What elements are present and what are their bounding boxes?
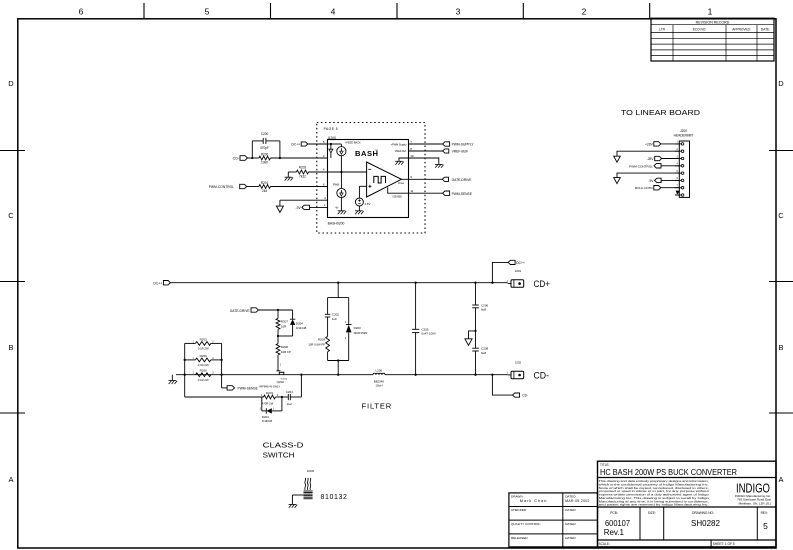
ground (analog, near R202) [285,177,294,180]
svg-text:D200: D200 [354,326,362,330]
svg-text:2: 2 [582,7,587,17]
wire R201 to U200 pin 6 [270,186,327,188]
legal text [599,479,709,506]
snubber/diode branch from DC++ rail [337,283,339,298]
ground arrow (between C206/C208) [469,331,476,339]
svg-text:J202: J202 [515,360,522,364]
internal sense wire [388,187,409,193]
svg-text:TITLE:: TITLE: [600,463,610,467]
square wave symbol [374,176,386,183]
svg-text:10R 0.6W FP: 10R 0.6W FP [308,343,325,347]
wire pin10 to ground [409,158,439,164]
svg-text:Drive: Drive [398,182,404,185]
svg-text:D: D [778,79,784,88]
svg-text:2.5V: 2.5V [365,202,371,206]
svg-text:DATED:: DATED: [565,522,576,526]
svg-text:PWM-SENSE: PWM-SENSE [452,192,473,196]
svg-text:0.1R 2W: 0.1R 2W [198,378,209,382]
svg-text:0.1R 2W: 0.1R 2W [198,347,209,351]
ground (pin 10) [435,164,444,167]
svg-text:C: C [8,211,14,220]
resistor R201 470R 1W (snubber) [261,391,279,406]
wire -9V to U200 pin 1 [310,206,328,208]
svg-text:HEADER8MT: HEADER8MT [674,134,694,138]
svg-text:BASH0200: BASH0200 [328,221,345,225]
svg-text:DC++: DC++ [291,143,300,147]
svg-text:10k0: 10k0 [261,160,268,164]
svg-text:R205: R205 [200,354,208,358]
wire 2.5V to ground [358,206,360,211]
svg-text:CD-: CD- [233,157,240,161]
svg-text:-28V: -28V [647,157,655,161]
node PWM-SENSE (port, upper) [443,191,450,195]
svg-text:GATE-DRIVE: GATE-DRIVE [230,309,251,313]
capacitor C206 6u8 [472,283,488,331]
drawn/checked rows [509,493,598,547]
svg-text:SCALE:: SCALE: [599,542,610,546]
svg-text:B: B [8,343,13,352]
ground (internal, pin10) [395,161,404,164]
svg-text:BULK-CNTR: BULK-CNTR [635,186,653,190]
svg-text:CD+: CD+ [534,279,551,290]
svg-text:R206: R206 [200,369,208,373]
node GATE-DRIVE (port, upper) [442,177,448,181]
svg-text:810132: 810132 [321,494,348,501]
svg-text:600107: 600107 [605,519,631,528]
wire ground to R202 [287,172,289,177]
diode D201 1N4934 [260,397,282,423]
resistor R202 7k32 [296,166,308,179]
resistor R200 10k0 [259,153,271,165]
connector J200 HEADER8MT [674,129,694,197]
junction on CD- line left [251,157,253,159]
wire R208 to Q200 gate [277,355,279,371]
svg-text:PWM: PWM [333,183,339,186]
svg-text:REV:: REV: [761,511,768,515]
svg-text:C200: C200 [261,132,269,136]
wire pin9 to GATE-DRIVE [409,178,443,180]
wire R201 row [185,396,264,398]
internal arrow pin5 to pin3 [330,144,332,149]
svg-text:J201: J201 [515,269,522,273]
node PWM-SENSE (port, lower) [222,387,228,389]
svg-text:VREF-Buf: VREF-Buf [395,150,407,153]
wire PWM-CONTROL to R201 [247,186,259,188]
svg-text:Markham, ON, L3R 1G1: Markham, ON, L3R 1G1 [739,501,772,505]
svg-text:D204: D204 [296,321,304,325]
svg-text:B: B [778,343,783,352]
capacitor C208 6u8 [472,331,488,375]
wire shunt left bus [184,343,186,397]
svg-text:C: C [778,211,784,220]
wire CD- to R200/C200 network [247,157,259,159]
svg-text:D: D [8,79,14,88]
svg-text:5: 5 [205,7,210,17]
svg-text:J200: J200 [680,129,687,133]
svg-text:W200: W200 [307,469,315,473]
current source I1 [337,147,346,156]
internal wire pin10 to ground [399,158,409,161]
svg-text:SIZE:: SIZE: [648,511,656,515]
svg-text:C204: C204 [286,390,294,394]
dashed boundary PAGE 5 block [317,123,425,234]
svg-text:DRAWING NO:: DRAWING NO: [692,511,714,515]
svg-text:R200: R200 [261,153,269,157]
wire DC++ rail [170,282,507,284]
ground (heatsink) [289,504,298,507]
ground (shunt left) [171,375,173,381]
svg-text:TO LINEAR BOARD: TO LINEAR BOARD [621,108,701,117]
resistor R207 10R [276,310,288,329]
title block [598,461,777,547]
svg-text:RELEASED:: RELEASED: [511,536,529,540]
inverting input minus sign [368,168,371,170]
svg-text:PWM-CONTROL: PWM-CONTROL [629,164,653,168]
svg-text:1: 1 [708,7,713,17]
svg-text:IRF840 W ONLY: IRF840 W ONLY [259,385,280,389]
resistor R206 0.1R 2W [193,369,215,382]
svg-text:4: 4 [331,7,336,17]
svg-text:10R: 10R [281,325,287,329]
voltage source 2.5V [355,198,363,206]
capacitor C204 2u2 [286,390,302,406]
wire pin7 to PWM-SUPPLY [409,143,443,145]
op-amp triangle [367,162,402,197]
svg-text:6u8: 6u8 [481,308,486,312]
resistor R205 0.1R 2W [185,354,222,367]
svg-text:+FEED BACK: +FEED BACK [345,141,361,144]
node PWM-SUPPLY (port) [443,142,450,146]
svg-text:7k32: 7k32 [299,174,306,178]
wire pin5 to ground arrow [617,173,679,178]
ground arrow (J200 pin 5) [614,178,621,184]
svg-text:DATED:: DATED: [565,508,576,512]
svg-text:6: 6 [79,7,84,17]
wire I1 to I2 [340,144,342,147]
part number fields [599,511,769,546]
ground arrow (pin 2) [276,206,283,212]
wire DC++ to U200 pin 5 [308,143,328,145]
svg-text:DATED:: DATED: [565,536,576,540]
svg-text:A: A [778,475,783,484]
node VREF-BUF (port) [443,149,449,153]
svg-text:PAGE 5: PAGE 5 [324,127,338,131]
svg-text:R202: R202 [299,166,307,170]
non-inverting input plus sign [368,185,371,187]
svg-text:10: 10 [410,154,414,158]
svg-text:Mark Chan: Mark Chan [520,499,548,503]
svg-text:VREF-BUF: VREF-BUF [452,150,469,154]
svg-text:470R 1W: 470R 1W [262,402,274,406]
inductor L200 B82340 [373,369,385,388]
svg-text:CD-: CD- [534,371,550,382]
svg-text:-9V: -9V [296,206,302,210]
wire pin8 stub [675,194,679,196]
svg-text:CD-: CD- [522,394,528,398]
svg-text:DATE:: DATE: [761,27,770,31]
svg-text:ECO NO:: ECO NO: [693,27,707,31]
resistor R208 10R FP [276,344,291,355]
ground (internal, current sources) [338,211,347,214]
diode D204 1N4148 [290,310,307,336]
heatsink 810132 [292,469,347,505]
junction internal (pin4 line) [340,171,342,173]
svg-text:Q200: Q200 [277,380,285,384]
capacitor C205 0u47 100V [412,283,436,375]
svg-text:10uH: 10uH [375,383,382,387]
svg-text:PWM-SUPPLY: PWM-SUPPLY [452,143,475,147]
internal wire pin5 node [328,143,342,145]
wire R202 to U200 pin 4 [309,171,328,173]
internal output wire [401,178,408,180]
svg-text:A: A [8,475,13,484]
resistor R201 2k4 [259,181,271,193]
wire pin2 to ground arrow [617,151,679,156]
revision record table [651,18,774,61]
svg-text:-9V: -9V [648,179,654,183]
svg-text:3: 3 [456,7,461,17]
svg-text:REVISION RECORD: REVISION RECORD [696,20,730,24]
node CD- (port, right stub) [492,375,512,395]
svg-text:0u47 100V: 0u47 100V [421,332,436,336]
resistor R203 0.1R 2W [185,337,222,350]
connector J202 CD- [507,360,524,378]
svg-text:U200: U200 [328,136,336,140]
wire snubber join to rail [328,360,349,362]
transistor Q200 IRF840 [259,371,287,389]
wire output rail (switch node) [176,374,373,376]
diode D200 MUR1520 [345,298,368,361]
svg-text:2u2: 2u2 [287,402,292,406]
svg-text:5: 5 [763,521,768,531]
connector J201 CD+ [507,269,524,287]
wire U200 pin 2 stub with arrow [280,199,328,201]
node DC++ (port, right stub) [492,262,508,282]
junction on CD- line right [279,157,281,159]
svg-text:R207: R207 [281,320,289,324]
ground arrow (J200 pin 2) [614,156,621,162]
svg-text:GATE-DRIVE: GATE-DRIVE [452,178,473,182]
wire pin8 to VREF-BUF [409,150,443,152]
svg-text:C202: C202 [332,312,340,316]
svg-text:11: 11 [410,189,413,193]
svg-text:+PWM Supply: +PWM Supply [391,143,408,146]
wire R207/D204 join [277,329,279,343]
svg-text:+28V: +28V [645,142,654,146]
svg-text:CLASS-D: CLASS-D [263,440,304,449]
svg-text:MUR1520: MUR1520 [354,331,368,335]
op-amp U200 BASH hybrid [328,140,409,218]
svg-text:R209: R209 [318,338,326,342]
svg-text:TM: TM [375,150,378,152]
capacitor C200 470pF (parallel loop) [252,132,280,158]
wire shunt right bus [221,343,223,388]
svg-text:Rev.1: Rev.1 [604,528,625,537]
svg-text:R201: R201 [261,181,269,185]
svg-text:R203: R203 [200,337,208,341]
svg-text:LTR: LTR [659,27,665,31]
svg-text:1N4148: 1N4148 [296,326,307,330]
svg-text:SWITCH: SWITCH [263,451,295,460]
svg-text:APPROVED:: APPROVED: [732,27,751,31]
wire pin11 to PWM-SENSE [409,192,443,194]
ground (internal, 2.5V source) [355,211,364,214]
svg-text:470pF: 470pF [260,146,269,150]
capacitor C202 1uF [325,298,339,337]
svg-text:6u8: 6u8 [481,351,486,355]
svg-text:L200: L200 [376,369,383,373]
svg-text:PWM-CONTROL: PWM-CONTROL [209,185,234,189]
current source I2 [337,188,346,197]
svg-text:MAR.05,2002: MAR.05,2002 [565,499,590,503]
svg-text:QUALITY CONTROL:: QUALITY CONTROL: [511,522,541,526]
svg-text:PCB:: PCB: [610,511,618,515]
svg-text:1uF: 1uF [332,317,337,321]
svg-text:0.1R 2W: 0.1R 2W [198,363,209,367]
svg-text:I SENSE: I SENSE [392,195,402,198]
svg-text:CHECKED:: CHECKED: [511,508,527,512]
svg-text:DC++: DC++ [516,261,525,265]
wire C204 to rail [300,375,302,397]
svg-text:PWM-SENSE: PWM-SENSE [238,386,259,390]
svg-text:2k4: 2k4 [262,189,267,193]
resistor R209 10R 0.6W FP [308,336,329,360]
svg-text:HC BASH 200W PS BUCK CONVERTER: HC BASH 200W PS BUCK CONVERTER [600,468,737,477]
svg-text:R201: R201 [266,391,274,395]
svg-text:SH0282: SH0282 [691,519,720,528]
svg-text:R208: R208 [281,345,289,349]
wire GATE-DRIVE to R207/D204 [258,309,292,311]
wire 2.5V to plus input [358,186,360,198]
svg-text:DC++: DC++ [153,281,162,285]
svg-text:SHEET: 1 OF 5: SHEET: 1 OF 5 [713,542,735,546]
svg-text:1N4934: 1N4934 [262,419,273,423]
svg-text:and patent rights are reserved: and patent rights are reserved by Indigo… [599,503,709,507]
svg-text:10R FP: 10R FP [281,350,291,354]
svg-text:FILTER: FILTER [362,401,392,410]
internal wire pin4 to op-amp inverting input [328,171,367,173]
